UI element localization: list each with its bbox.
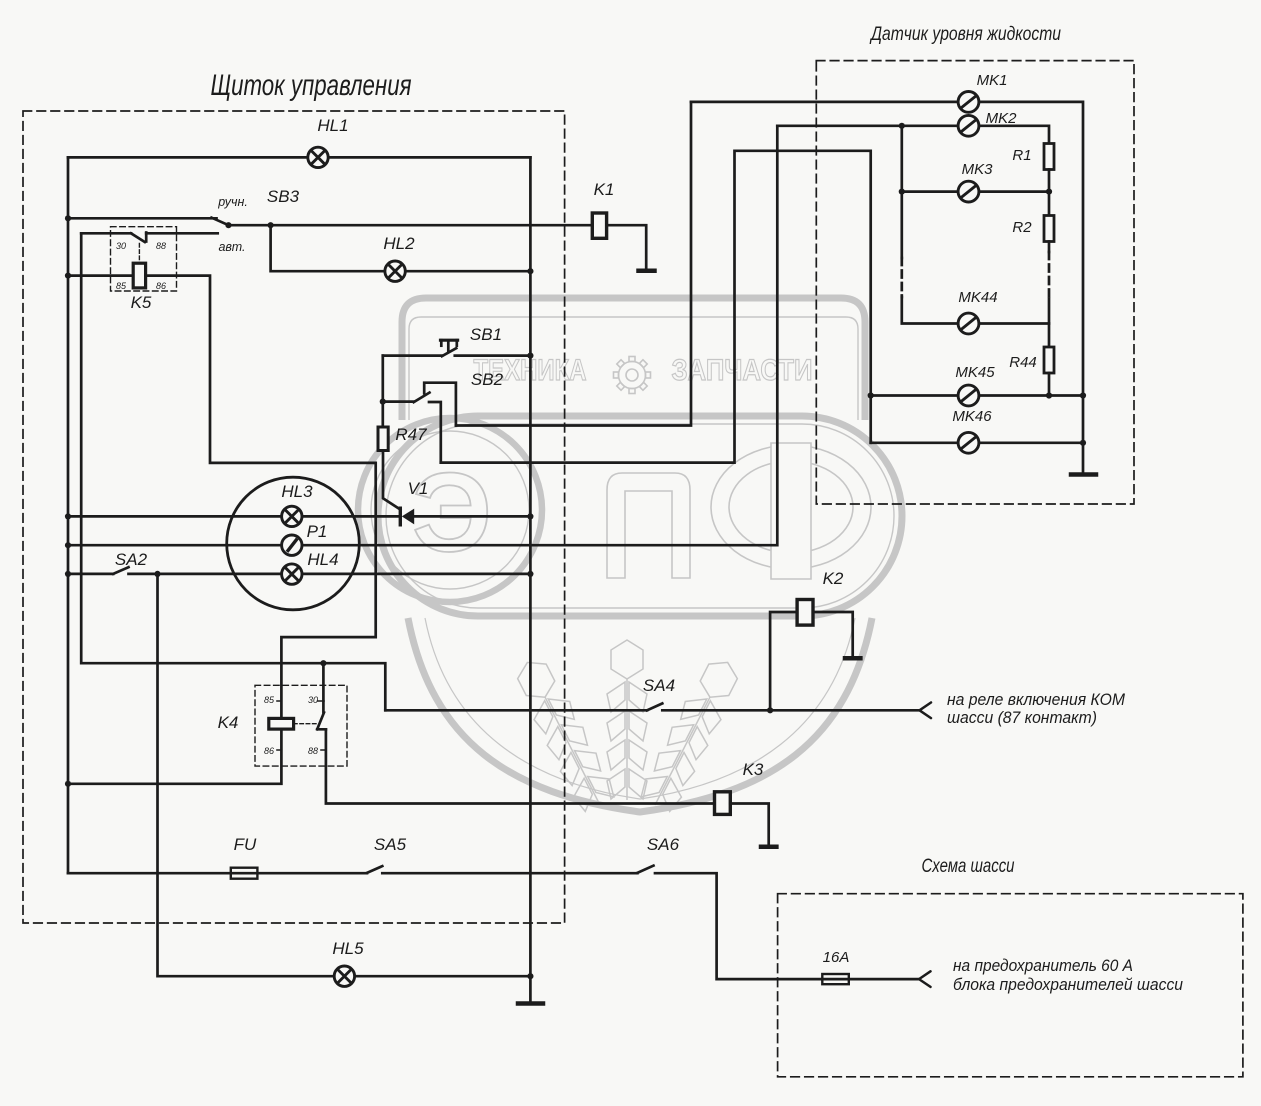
wire SA5 to SA6 [382,872,637,875]
svg-text:HL5: HL5 [332,939,364,958]
wire K5 86 to K4 85 [146,276,376,719]
wire MK2/MK3/MK44 common [900,126,903,258]
wire SA2 drop to HL5 [158,574,531,976]
svg-text:R1: R1 [1012,147,1031,164]
svg-text:16А: 16А [823,949,850,966]
node junction [65,215,71,221]
reed switch MK44 [958,313,979,334]
wire K5 30 terminal [81,232,131,235]
lamp HL3 [282,506,302,526]
ground sensor bar [1071,472,1096,477]
sensor box dashed border [816,61,1134,504]
wire MK1 row and right drop [691,102,1083,473]
wire top row HL1 [68,156,530,159]
svg-text:SB1: SB1 [470,325,502,344]
wire SB2 to MK1 [456,102,691,426]
svg-text:Схема шасси: Схема шасси [922,856,1015,877]
switch SA2 blade [113,567,128,574]
svg-text:V1: V1 [408,479,429,498]
node junction [268,222,274,228]
resistor R1 [1044,144,1054,170]
wire R1-R2 [1048,170,1051,216]
svg-text:30: 30 [308,695,318,705]
svg-text:K2: K2 [823,569,844,588]
switch SA5 blade [367,866,382,873]
svg-text:86: 86 [156,281,166,291]
svg-text:HL1: HL1 [317,116,348,135]
gauge P1 [282,535,302,555]
svg-text:SB3: SB3 [267,187,300,206]
wire MK2 row [777,126,1049,144]
switch SB3 blade [212,218,229,226]
svg-text:30: 30 [116,241,126,251]
node junction [527,268,533,274]
wire SB2 to MK45/MK46 [441,151,871,463]
arrow to KOM relay [920,703,932,719]
relay K1 coil [592,213,606,238]
wire K2 to ground [813,612,853,657]
relay K3 coil [715,792,731,815]
svg-text:SA2: SA2 [115,550,148,569]
svg-text:88: 88 [308,746,318,756]
ground K1 bar [639,268,655,273]
wire SB2 left [383,400,414,403]
svg-text:K1: K1 [594,180,615,199]
svg-text:88: 88 [156,241,166,251]
node junction [1046,189,1052,195]
svg-text:Датчик уровня жидкости: Датчик уровня жидкости [869,24,1061,45]
wire SA2/HL4 row [129,573,531,576]
switch SB2 top bracket [424,383,456,426]
wire SB3 pole to K1 [229,224,593,227]
wire K3 to ground [730,804,768,846]
lamp HL5 [334,966,354,986]
svg-text:HL3: HL3 [281,482,313,501]
svg-text:на реле включения КОМ: на реле включения КОМ [947,690,1126,709]
wire SA2 left [68,573,113,576]
wire SB1 right [455,354,531,357]
svg-text:авт.: авт. [218,240,245,254]
svg-text:R47: R47 [395,425,427,444]
wire main vertical bus [529,157,532,1003]
lamp HL2 [385,261,405,281]
diode V1 [399,508,402,525]
node junction [65,513,71,519]
wire FU row [68,872,367,875]
ground HL5 bar [518,1001,543,1006]
svg-text:FU: FU [234,835,257,854]
wire K4 88 to K3 [326,730,715,804]
relay K4 dashed box [255,685,347,766]
wire K5 85 from bus [68,274,133,277]
contact K4 30 [322,663,325,712]
svg-text:HL2: HL2 [383,234,415,253]
svg-text:на предохранитель 60 А: на предохранитель 60 А [953,956,1133,975]
svg-text:K5: K5 [131,293,152,312]
node junction [320,660,326,666]
wire left bus [67,157,70,873]
node junction [65,273,71,279]
node junction [899,189,905,195]
wire K2 branch [770,612,797,710]
svg-text:85: 85 [264,695,275,705]
node junction [380,399,386,405]
wire R47 to V1 [383,451,400,510]
instrument cluster circle [227,477,360,610]
watermark logo [358,298,902,814]
wire SB1 drop to SB2/R47 [381,356,384,427]
node junction [1046,392,1052,398]
node junction [65,571,71,577]
wire K5-30 down and across to SA4 [81,233,385,710]
switch SA4 blade [647,703,662,710]
node junction [65,781,71,787]
resistor R2 [1044,216,1054,242]
resistor R44 [1044,347,1054,373]
svg-text:Щиток управления: Щиток управления [211,69,412,102]
wire SA4 row left [385,709,647,712]
fuse FU [231,868,258,879]
svg-text:P1: P1 [307,522,328,541]
lamp HL1 [308,147,328,167]
ground K3 bar [761,845,776,850]
wire MK3 row [902,190,1049,193]
switch SB1 blade [442,348,456,356]
contact K4 blade [317,713,326,730]
reed switch MK1 [958,92,979,113]
svg-text:шасси (87 контакт): шасси (87 контакт) [947,708,1097,727]
reed switch MK3 [958,181,979,202]
node junction [868,392,874,398]
node junction [1080,440,1086,446]
lamp HL4 [282,564,302,584]
svg-text:MK1: MK1 [977,72,1008,89]
svg-text:MK3: MK3 [962,161,994,178]
node junction [899,123,905,129]
node junction [527,353,533,359]
relay K2 coil [797,600,813,626]
wire SB1 left [383,354,442,357]
svg-text:SB2: SB2 [471,370,504,389]
svg-text:K4: K4 [218,713,239,732]
chassis box dashed border [778,894,1243,1077]
svg-text:MK45: MK45 [955,364,995,381]
ground K2 bar [845,656,860,661]
relay K4 coil [269,718,294,729]
svg-text:блока предохранителей шасси: блока предохранителей шасси [953,975,1183,994]
resistor R47 [378,427,388,451]
svg-text:K3: K3 [743,760,764,779]
pushbutton SB1 plunger [447,343,450,352]
node junction [225,222,231,228]
relay K4 terminal ticks [277,701,326,750]
svg-text:R44: R44 [1009,354,1037,371]
switch SB2 blade [414,393,430,403]
wire SB3 ruchn contact [68,217,217,220]
wire SB2 lower contact [429,402,441,463]
wire MK45 row [871,394,1083,397]
wire R44 bottom [1048,373,1051,396]
wire MK46 row [871,441,1083,444]
wire HL2 branch [271,225,531,271]
relay K5 dashed box [111,227,177,291]
node junction [527,973,533,979]
switch SA6 blade [637,866,653,873]
fuse 16A [822,974,849,984]
node junction [527,513,533,519]
wire R2 continuation [1048,242,1051,253]
wire P1 row to MK2 [68,126,777,545]
wire K1 to ground [607,225,647,269]
relay K5 dashed link [138,244,140,264]
node junction [767,707,773,713]
relay K5 coil [133,263,145,288]
svg-text:Э: Э [412,450,492,575]
node junction [527,571,533,577]
reed switch MK2 [958,115,979,136]
svg-text:R2: R2 [1012,219,1032,236]
svg-text:MK2: MK2 [986,110,1018,127]
svg-text:MK46: MK46 [952,408,992,425]
wire SA4 row right [662,709,920,712]
contact K5 blade [131,233,145,242]
svg-text:ручн.: ручн. [217,195,248,209]
wire SA6 to 16A fuse [655,873,920,979]
arrow to chassis fuse [919,971,931,987]
control panel dashed border [23,111,565,923]
relay K4 dashed link [294,723,318,725]
svg-text:ЗАПЧАСТИ: ЗАПЧАСТИ [672,354,813,387]
svg-text:HL4: HL4 [307,550,338,569]
node junction [154,571,160,577]
node junction [65,542,71,548]
wire K5 88 to SB3 avt contact [146,232,218,235]
reed switch MK45 [958,385,979,406]
svg-text:86: 86 [264,746,274,756]
svg-text:SA5: SA5 [374,835,407,854]
svg-text:SA4: SA4 [643,676,675,695]
node junction [1080,392,1086,398]
reed switch MK46 [958,432,979,453]
wire HL3 row [68,515,400,518]
svg-text:SA6: SA6 [647,835,680,854]
wire K4 86 to bus [68,729,281,784]
svg-text:85: 85 [116,281,127,291]
svg-text:MK44: MK44 [958,289,997,306]
